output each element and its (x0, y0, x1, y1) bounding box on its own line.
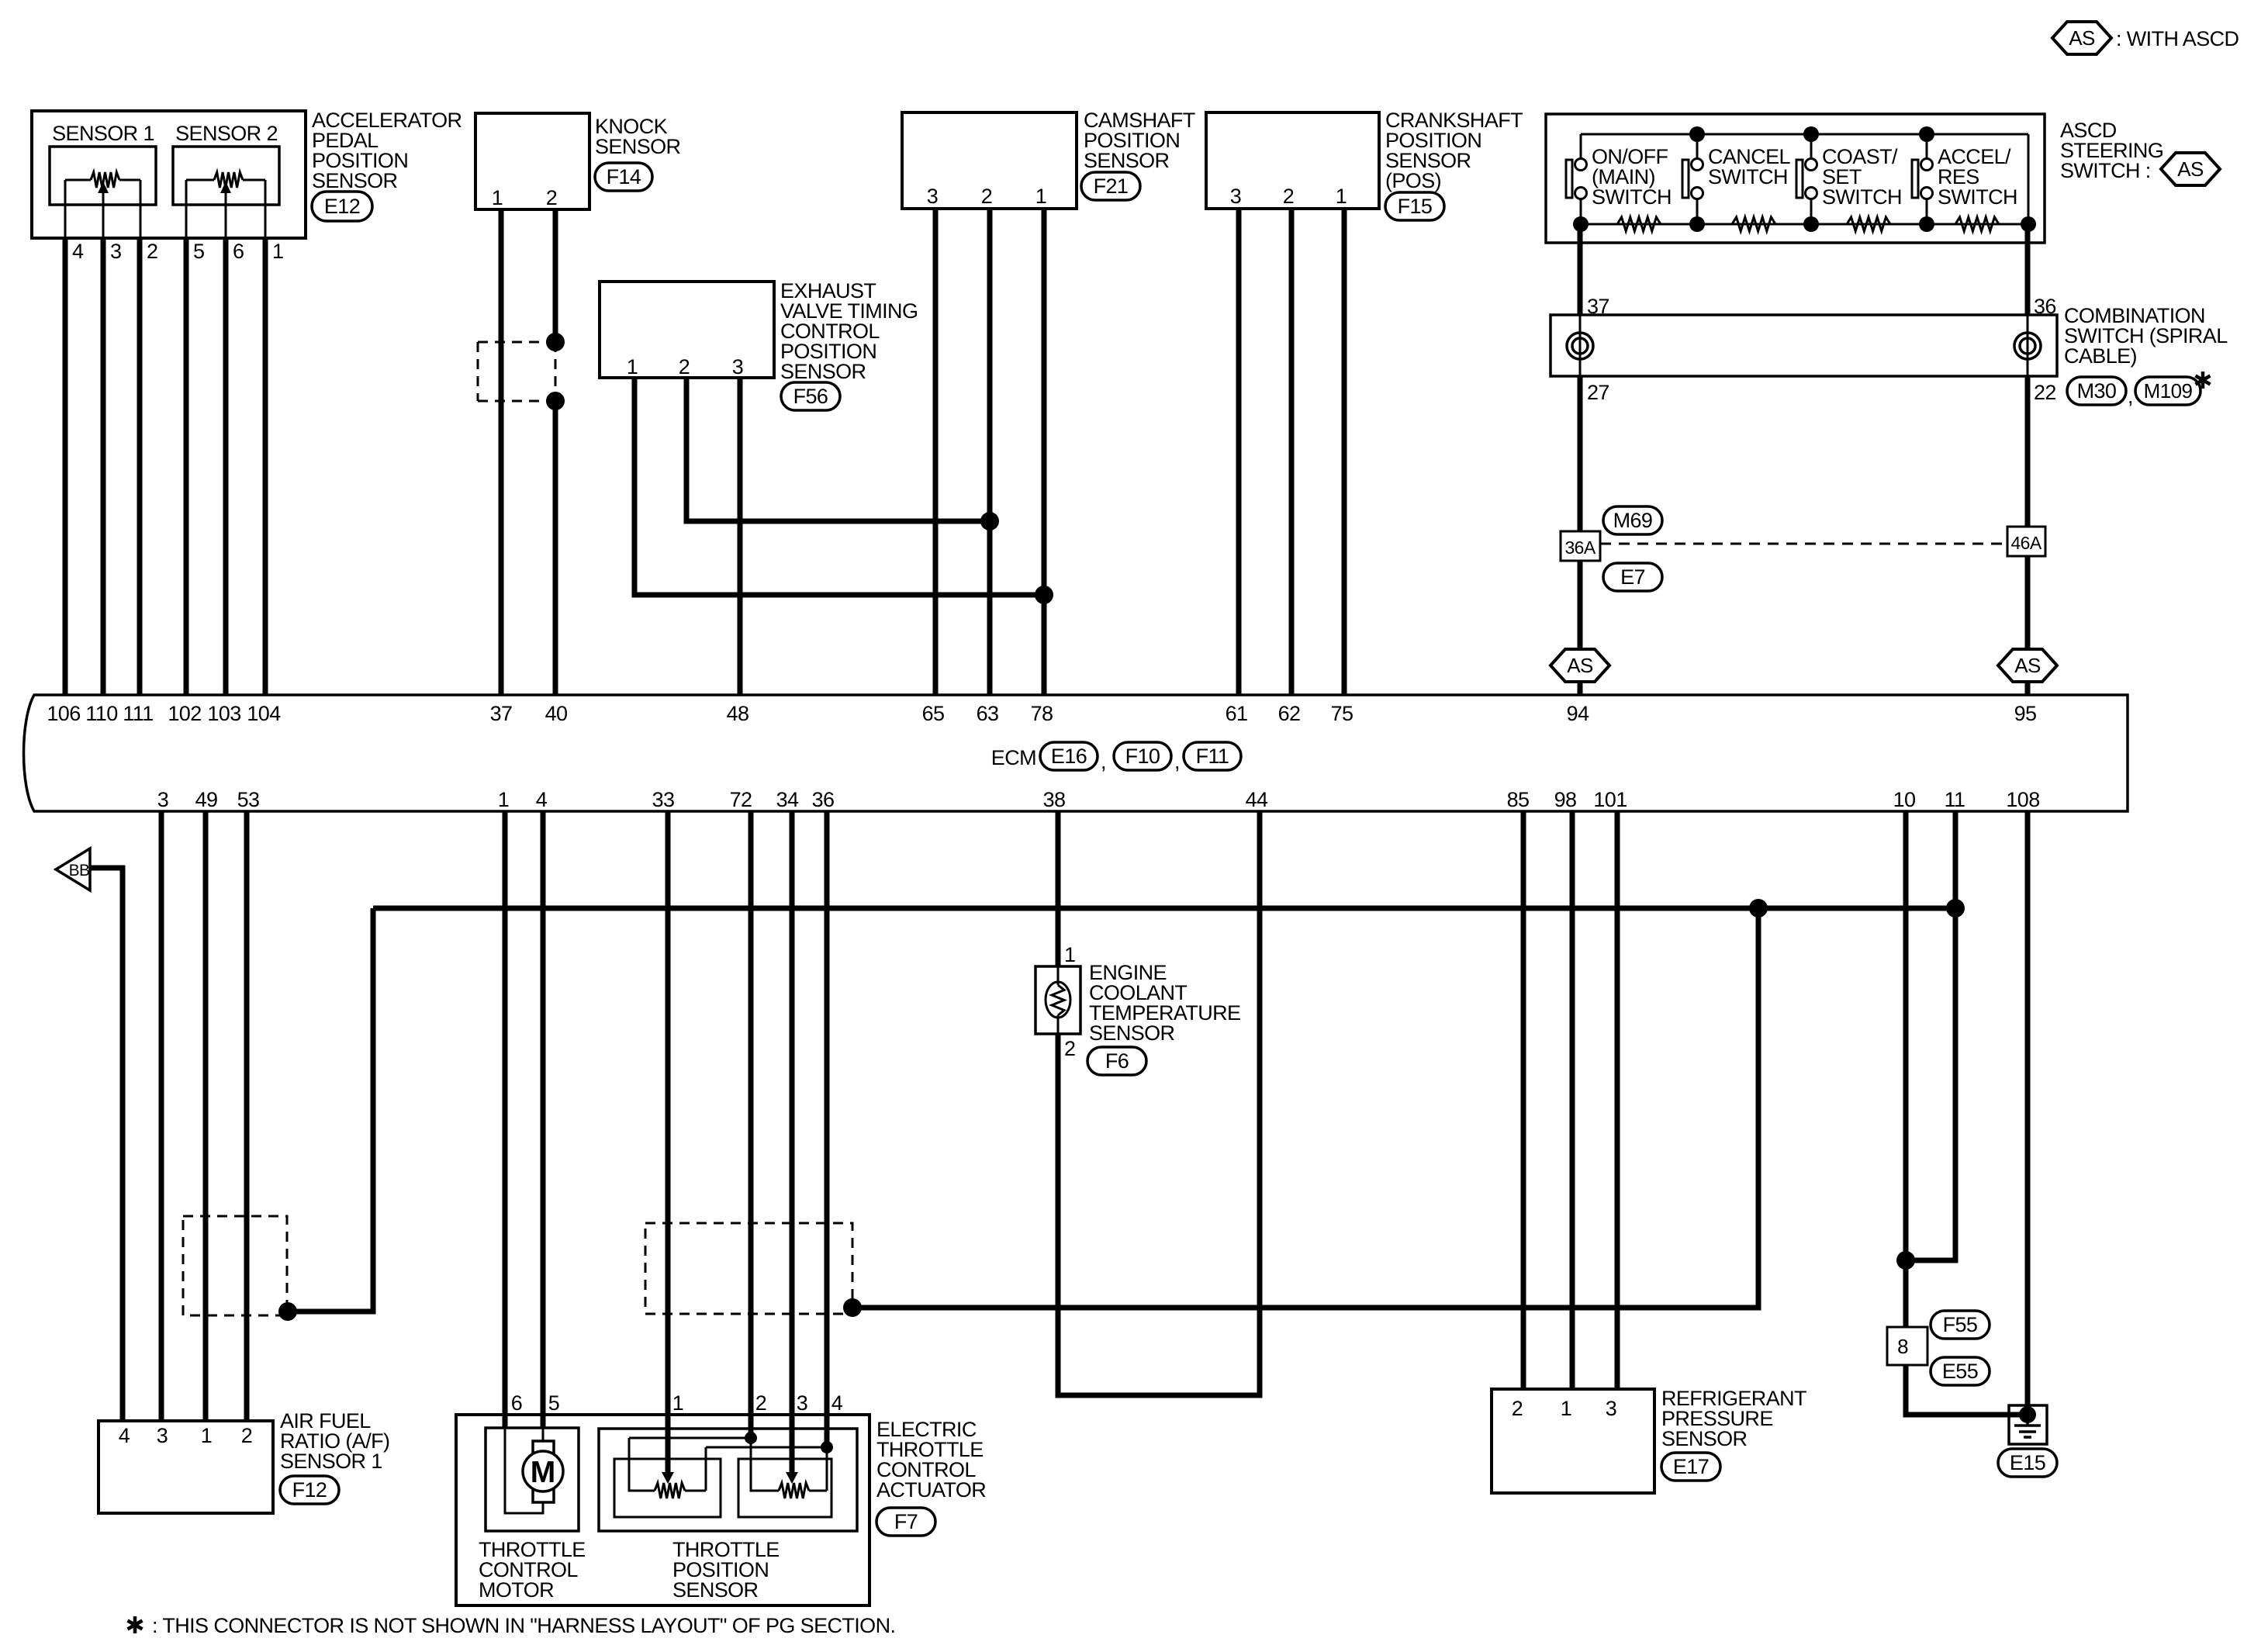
svg-text:3: 3 (797, 1391, 807, 1415)
wire ECM 10 down to connector 8 (1903, 811, 1909, 1327)
svg-text:36A: 36A (1564, 537, 1595, 558)
svg-text:SWITCH: SWITCH (1822, 185, 1902, 209)
svg-text:SENSOR 2: SENSOR 2 (175, 122, 278, 145)
svg-text:3: 3 (927, 185, 938, 208)
svg-text:2: 2 (147, 240, 157, 263)
svg-text:1: 1 (1035, 185, 1046, 208)
switch coast/set switch (1810, 134, 1813, 159)
svg-text:1: 1 (201, 1424, 212, 1447)
svg-text:33: 33 (652, 788, 675, 811)
wire ECM 85 to refrigerant sensor pin 2 (1521, 811, 1526, 1389)
svg-text:53: 53 (237, 788, 260, 811)
spiral cable symbol right (2014, 333, 2041, 359)
svg-text:46A: 46A (2010, 533, 2041, 553)
svg-text:4: 4 (831, 1391, 843, 1415)
wire ASCD switch 36 to combination switch (2025, 224, 2031, 315)
junction dot ground bus to lower link (1749, 899, 1768, 918)
ASCD bottom bus wire (1581, 223, 2028, 226)
ground symbol E15 (2009, 1405, 2047, 1444)
svg-text:65: 65 (922, 702, 945, 725)
svg-text:AS: AS (1567, 654, 1593, 677)
svg-text:F7: F7 (894, 1510, 918, 1533)
resistor between accel/res and right bus (1955, 217, 1999, 231)
svg-text:SWITCH: SWITCH (1708, 165, 1788, 188)
wire combination switch 22 to connector 46A (2025, 376, 2031, 527)
motor M symbol (505, 1428, 543, 1513)
svg-text:F14: F14 (607, 165, 641, 188)
potentiometer sensor 2 (186, 179, 214, 181)
knock shield dashed box (478, 342, 555, 401)
camshaft position sensor F21 box (902, 112, 1077, 209)
wire ECM 53 to A/F pin 2 (244, 811, 250, 1421)
svg-text:72: 72 (730, 788, 752, 811)
wire knock pin1 to ECM 37 (499, 209, 504, 695)
svg-text:106: 106 (47, 702, 80, 725)
svg-text:,: , (1101, 750, 1106, 773)
svg-text:36: 36 (812, 788, 835, 811)
svg-text:2: 2 (755, 1391, 766, 1415)
svg-text:10: 10 (1893, 788, 1916, 811)
junction dots ASCD top bus (1689, 126, 1705, 142)
spiral cable symbol left (1567, 333, 1593, 359)
wire knock pin2 to ECM 40 (553, 401, 558, 695)
svg-text:F21: F21 (1094, 175, 1129, 198)
junction dot F56 pin1 camshaft pin1 (1035, 586, 1053, 604)
crankshaft position sensor F15 box (1206, 112, 1379, 209)
svg-text:1: 1 (1336, 185, 1347, 208)
svg-text:1: 1 (672, 1391, 683, 1415)
engine coolant temperature sensor F6 box (1035, 966, 1080, 1034)
ASCD top bus wire (1581, 133, 2028, 136)
exhaust valve timing control position sensor F56 box (600, 282, 774, 378)
svg-text:SWITCH: SWITCH (1592, 185, 1672, 209)
svg-text:111: 111 (123, 702, 153, 725)
wire ECM 36 to throttle position sensor pin 4 (825, 811, 830, 1447)
svg-text:6: 6 (233, 240, 244, 263)
svg-text:3: 3 (157, 788, 168, 811)
svg-text:3: 3 (1606, 1397, 1616, 1420)
wire E12 to ECM 110 (101, 238, 106, 695)
connector oval F56 (781, 382, 840, 410)
wire connector 8 to ground E15 (1906, 1365, 2028, 1415)
connector 36A (1561, 531, 1600, 561)
resistor between coast/set and accel/res (1847, 217, 1890, 231)
svg-text:2: 2 (1512, 1397, 1523, 1420)
svg-text:SENSOR: SENSOR (1661, 1427, 1748, 1450)
svg-text:1: 1 (272, 240, 283, 263)
wire E12 to ECM 106 (63, 238, 68, 695)
svg-text:1: 1 (1561, 1397, 1571, 1420)
svg-text:E15: E15 (2010, 1451, 2045, 1474)
wire ECM 4 to throttle control motor pin 5 (541, 811, 546, 1428)
svg-text:SENSOR: SENSOR (1084, 149, 1170, 172)
svg-text:4: 4 (536, 788, 548, 811)
svg-text:5: 5 (548, 1391, 559, 1415)
ground bus wire below ECM (373, 906, 1955, 911)
asterisk mark (2196, 372, 2211, 389)
wire crankshaft pin2 to ECM 62 (1289, 209, 1295, 695)
connector oval E12 (312, 192, 372, 221)
TPS shield dashed box (645, 1223, 852, 1314)
svg-text:27: 27 (1587, 381, 1609, 404)
svg-text:49: 49 (195, 788, 218, 811)
svg-text:108: 108 (2006, 788, 2039, 811)
wire ECM 101 to refrigerant sensor pin 3 (1615, 811, 1620, 1389)
svg-text:98: 98 (1554, 788, 1577, 811)
wire camshaft pin1 to ECM 78 (1042, 209, 1047, 695)
wire AS to ECM 95 (2025, 682, 2031, 695)
svg-text:F11: F11 (1196, 745, 1229, 768)
TPS potentiometer 1 (629, 1438, 655, 1491)
svg-text:63: 63 (977, 702, 999, 725)
svg-text:ACTUATOR: ACTUATOR (876, 1478, 986, 1502)
svg-text:34: 34 (776, 788, 799, 811)
svg-text:3: 3 (732, 355, 743, 378)
legend AS symbol: WITH ASCD (2052, 22, 2111, 54)
svg-text:SENSOR: SENSOR (780, 360, 866, 383)
accelerator pedal position sensor E12 box (32, 111, 306, 238)
wire crankshaft pin1 to ECM 75 (1342, 209, 1347, 695)
ECM box (24, 695, 2128, 811)
TPS internal supply link lower (706, 1446, 827, 1449)
wire ECM 11 to ground bus and to wire 10 (1906, 811, 1955, 1260)
knock shield dashed wire segment (555, 342, 557, 401)
ASCD steering switch box (1546, 114, 2045, 243)
wire ECM 1 to throttle control motor pin 6 (503, 811, 508, 1428)
ground wire A/F shield to ground bus (288, 908, 373, 1312)
air fuel ratio sensor F12 box (99, 1421, 273, 1513)
svg-text:8: 8 (1897, 1335, 1908, 1358)
svg-text:5: 5 (193, 240, 204, 263)
svg-text:SENSOR: SENSOR (1089, 1021, 1175, 1045)
svg-text:38: 38 (1043, 788, 1066, 811)
wire E12 to ECM 103 (223, 238, 229, 695)
svg-text:SENSOR 1: SENSOR 1 (52, 122, 154, 145)
ground wire TPS shield to ground bus (852, 908, 1758, 1308)
svg-text:M109: M109 (2144, 379, 2193, 403)
svg-text:78: 78 (1031, 702, 1053, 725)
svg-text:75: 75 (1331, 702, 1353, 725)
svg-text:SENSOR: SENSOR (312, 169, 398, 192)
ASCD right bus vertical wire (2028, 134, 2030, 224)
svg-text:6: 6 (511, 1391, 522, 1415)
wire 46A to AS symbol right (2025, 556, 2031, 649)
svg-text:SENSOR 1: SENSOR 1 (280, 1450, 382, 1473)
svg-text:F12: F12 (292, 1478, 327, 1502)
wire through spiral cable left (1579, 315, 1582, 376)
junction dots ASCD bottom bus (1573, 216, 1589, 232)
connector oval E55 (1931, 1357, 1990, 1385)
connector oval E15 (1998, 1449, 2057, 1477)
svg-text:E55: E55 (1942, 1360, 1978, 1383)
A/F sensor shield dashed box (183, 1216, 287, 1315)
svg-text:E7: E7 (1620, 565, 1645, 589)
wire AS to ECM 94 (1578, 682, 1583, 695)
junction dot TPS shield to ground (843, 1298, 862, 1317)
switch cancel switch (1696, 134, 1699, 159)
svg-text:SENSOR: SENSOR (672, 1578, 759, 1602)
wire E12 to ECM 104 (263, 238, 268, 695)
combination switch spiral cable box (1551, 315, 2057, 376)
junction dot knock shield top (546, 333, 565, 351)
BB page connector arrow (56, 848, 90, 890)
svg-text:M30: M30 (2077, 379, 2117, 403)
connector oval F7 (876, 1508, 935, 1536)
svg-text:2: 2 (679, 355, 690, 378)
svg-text:103: 103 (207, 702, 240, 725)
connector oval E17 (1661, 1453, 1720, 1481)
wire camshaft pin3 to ECM 65 (933, 209, 939, 695)
svg-text:ECM: ECM (991, 746, 1036, 769)
svg-text:4: 4 (119, 1424, 130, 1447)
svg-text:F6: F6 (1105, 1049, 1129, 1073)
svg-text:1: 1 (492, 186, 503, 209)
wire combination switch 27 to connector 36A (1578, 376, 1583, 531)
wire ECT pin 2 to ECM 44 (1058, 811, 1260, 1395)
svg-text:104: 104 (247, 702, 281, 725)
svg-text:3: 3 (1230, 185, 1241, 208)
wire ECM 98 to refrigerant sensor pin 1 (1570, 811, 1575, 1389)
svg-text:CABLE): CABLE) (2064, 344, 2137, 368)
throttle control motor box (486, 1428, 579, 1531)
svg-text:SENSOR: SENSOR (595, 135, 681, 158)
junction dot TPS pin2 supply (745, 1432, 757, 1444)
wire E12 to ECM 102 (184, 238, 189, 695)
wire camshaft pin2 to ECM 63 (987, 209, 993, 695)
svg-text:85: 85 (1507, 788, 1530, 811)
svg-text:,: , (2128, 385, 2133, 408)
svg-text:2: 2 (546, 186, 557, 209)
svg-text:(POS): (POS) (1385, 169, 1441, 192)
connector oval M109 (2135, 377, 2200, 405)
wire ECM 34 to throttle position sensor pin 3 (790, 811, 795, 1429)
AS symbol on wire to ECM 95 (1998, 649, 2057, 682)
wire through spiral cable right (2027, 315, 2029, 376)
svg-text:37: 37 (490, 702, 513, 725)
junction dot ground bus at ECM 11 wire (1946, 899, 1965, 918)
svg-text:AS: AS (2014, 654, 2041, 677)
wire F56 pin2 to camshaft pin2 node (686, 378, 990, 521)
throttle position sensor box (599, 1429, 857, 1531)
connector 8 with F55 E55 (1887, 1327, 1927, 1365)
wire ECM 38 to ECT sensor pin 1 (1056, 811, 1061, 966)
footnote asterisk (128, 1616, 143, 1633)
connector oval E7 (1603, 563, 1662, 591)
svg-text:: THIS CONNECTOR IS NOT SHOWN: : THIS CONNECTOR IS NOT SHOWN IN "HARNES… (152, 1614, 895, 1637)
svg-text:SWITCH :: SWITCH : (2060, 159, 2151, 182)
svg-text:2: 2 (1064, 1037, 1075, 1060)
dashed link 36A to 46A (1600, 543, 2007, 545)
junction dot A/F shield to ground (278, 1302, 297, 1321)
svg-text:2: 2 (241, 1424, 252, 1447)
svg-text:94: 94 (1567, 702, 1589, 725)
wire 36A to AS symbol left (1578, 561, 1583, 649)
wire E12 to ECM 111 (137, 238, 143, 695)
svg-text:M69: M69 (1613, 509, 1653, 532)
TPS internal supply link upper (629, 1437, 751, 1439)
svg-text:22: 22 (2034, 381, 2056, 404)
connector oval F12 (280, 1476, 339, 1504)
svg-text:3: 3 (110, 240, 121, 263)
connector oval F15 (1385, 192, 1444, 220)
svg-text:: WITH ASCD: : WITH ASCD (2116, 27, 2239, 50)
wire crankshaft pin3 to ECM 61 (1236, 209, 1242, 695)
connector oval F14 (595, 163, 652, 191)
junction dot F56 pin2 camshaft pin2 (980, 512, 999, 531)
wire ECM 3 to A/F pin 3 (159, 811, 164, 1421)
connector oval F21 (1081, 172, 1140, 200)
svg-text:MOTOR: MOTOR (479, 1578, 554, 1602)
svg-text:AS: AS (2069, 26, 2095, 50)
resistor between on/off and cancel (1617, 217, 1661, 231)
switch accel/res switch (1926, 134, 1928, 159)
potentiometer sensor 1 (65, 179, 91, 181)
wire ECM 49 to A/F pin 1 (203, 811, 209, 1421)
svg-text:48: 48 (727, 702, 749, 725)
svg-text:2: 2 (981, 185, 992, 208)
TPS potentiometer 2 box (738, 1459, 831, 1517)
connector oval M69 (1603, 506, 1662, 534)
svg-text:BB: BB (69, 862, 90, 880)
knock sensor F14 box (475, 113, 589, 209)
wire ECM 108 to ground E15 (2025, 811, 2031, 1405)
svg-text:F15: F15 (1398, 195, 1433, 218)
svg-text:1: 1 (498, 788, 509, 811)
svg-text:44: 44 (1246, 788, 1268, 811)
junction dot TPS pin4 supply (821, 1441, 833, 1453)
refrigerant pressure sensor E17 box (1492, 1389, 1654, 1493)
wire ASCD switch 37 to combination switch (1578, 224, 1583, 315)
wire ECM 33 to throttle position sensor pin 1 (666, 811, 671, 1429)
svg-text:1: 1 (1064, 943, 1075, 966)
svg-text:E16: E16 (1051, 745, 1087, 768)
svg-text:F10: F10 (1125, 745, 1160, 768)
svg-text:40: 40 (545, 702, 568, 725)
svg-text:61: 61 (1226, 702, 1248, 725)
svg-text:101: 101 (1593, 788, 1627, 811)
junction dot wires 10 and 11 (1896, 1251, 1915, 1270)
AS symbol on wire to ECM 94 (1551, 649, 1609, 682)
svg-text:M: M (531, 1456, 556, 1489)
wire ECM 72 to throttle position sensor pin 2 (748, 811, 754, 1438)
svg-text:E12: E12 (324, 195, 360, 218)
wire BB arrow to A/F pin 4 (90, 868, 123, 1421)
junction dot knock shield bottom (546, 392, 565, 410)
svg-text:102: 102 (168, 702, 201, 725)
wire knock pin2 upper segment (553, 209, 558, 342)
svg-text:1: 1 (627, 355, 638, 378)
connector oval F6 (1087, 1047, 1146, 1075)
svg-text:95: 95 (2014, 702, 2037, 725)
svg-text:4: 4 (72, 240, 84, 263)
svg-text:11: 11 (1945, 788, 1965, 811)
svg-text:2: 2 (1283, 185, 1294, 208)
svg-text:AS: AS (2177, 157, 2204, 181)
wire F56 pin3 to ECM 48 (738, 378, 743, 695)
svg-text:62: 62 (1278, 702, 1301, 725)
svg-text:3: 3 (157, 1424, 168, 1447)
wire F56 pin1 to camshaft pin1 node (634, 378, 1044, 595)
svg-text:F56: F56 (793, 385, 828, 408)
svg-text:SWITCH: SWITCH (1938, 185, 2017, 209)
electric throttle control actuator F7 box (456, 1415, 869, 1605)
connector oval F55 (1931, 1311, 1990, 1339)
svg-text:E17: E17 (1673, 1455, 1709, 1478)
AS symbol at ASCD steering switch label (2161, 153, 2220, 185)
svg-text:,: , (1174, 750, 1180, 773)
resistor between cancel and coast/set (1732, 217, 1775, 231)
svg-text:F55: F55 (1943, 1313, 1978, 1336)
connector 46A (2007, 527, 2045, 556)
TPS potentiometer 2 (751, 1438, 779, 1491)
TPS potentiometer 1 box (614, 1459, 721, 1517)
connector oval M30 (2067, 377, 2126, 405)
switch on/off main switch (1580, 134, 1582, 159)
svg-text:110: 110 (85, 702, 117, 725)
